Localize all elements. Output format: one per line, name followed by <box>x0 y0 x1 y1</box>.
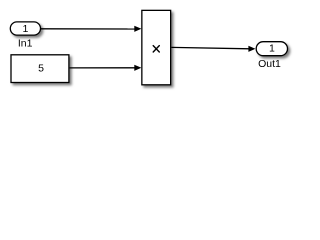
wire In1 to product input 1 <box>41 26 141 32</box>
wire constant to product input 2 <box>70 65 142 71</box>
inport block In1 <box>10 22 40 35</box>
multiply symbol x <box>153 46 159 52</box>
svg-text:5: 5 <box>38 62 44 74</box>
svg-text:Out1: Out1 <box>258 58 281 70</box>
svg-text:In1: In1 <box>18 38 33 50</box>
svg-text:1: 1 <box>269 43 275 55</box>
product block (multiply) <box>142 10 171 84</box>
wire product output to Out1 <box>171 46 255 52</box>
svg-text:1: 1 <box>22 23 28 35</box>
outport block Out1 <box>256 42 287 56</box>
constant block value 5 <box>11 55 69 83</box>
